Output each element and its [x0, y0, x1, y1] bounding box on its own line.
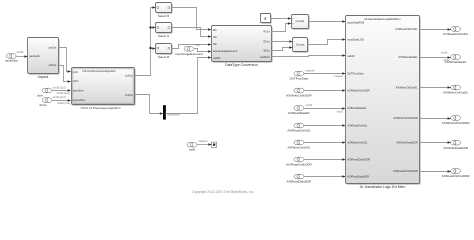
- svg-text:pxlIn: pxlIn: [73, 70, 79, 74]
- svg-text:pxlOut: pxlOut: [125, 74, 133, 78]
- svg-text:AXIWriteCtrlOutDDR: AXIWriteCtrlOutDDR: [393, 116, 418, 120]
- svg-text:AXIWriteCtrlOutDL: AXIWriteCtrlOutDL: [443, 91, 468, 95]
- svg-text:inputImageExponent: inputImageExponent: [175, 52, 203, 56]
- svg-text:AXIReadCtrlOutDL: AXIReadCtrlOutDL: [443, 32, 469, 36]
- block Select B: [156, 3, 173, 19]
- arrowhead Select G: [152, 26, 155, 29]
- arrowhead DUTProcStart: [342, 72, 345, 75]
- svg-text:pxlOut: pxlOut: [49, 45, 57, 49]
- block Select R: [156, 44, 173, 60]
- arrowhead AXIWriteDataDDR oval: [448, 141, 451, 144]
- arrowhead inputImageExponent: [208, 50, 211, 53]
- port InputData: [5, 54, 18, 63]
- svg-text:AXIWriteDataDDR: AXIWriteDataDDR: [443, 146, 468, 150]
- port AXIReadDataDL: [288, 106, 311, 116]
- svg-text:validOut: validOut: [260, 55, 270, 59]
- svg-text:DUTProcStart: DUTProcStart: [290, 77, 309, 81]
- port AXIWriteCtrlOutDDR port: [442, 116, 471, 126]
- wire dims1 to YOLO: [52, 100, 71, 102]
- block Concat: [292, 15, 310, 30]
- svg-text:4: 4: [264, 16, 267, 21]
- wire AXIWriteCtrlInDDR wire: [304, 90, 346, 92]
- arrowhead Concat in1: [288, 17, 291, 20]
- svg-text:dims: dims: [37, 93, 44, 97]
- wire Unpack pxlOut to pxlIn: [59, 48, 71, 72]
- svg-text:AXIReadDataDL: AXIReadDataDL: [288, 111, 311, 115]
- arrowhead pxlIn: [68, 70, 71, 73]
- svg-text:boolean: boolean: [306, 69, 316, 72]
- wire Select B to Bin: [172, 8, 212, 30]
- svg-text:Bin: Bin: [213, 28, 217, 32]
- arrowhead AXIReadDataDDR: [342, 175, 345, 178]
- svg-text:YOLO v2 Preprocess Algorithm: YOLO v2 Preprocess Algorithm: [80, 106, 121, 110]
- svg-text:AXIWriteCtrlOutDL: AXIWriteCtrlOutDL: [396, 86, 419, 90]
- svg-text:validIn: validIn: [213, 56, 221, 60]
- svg-text:Select B: Select B: [158, 14, 169, 18]
- wire GOut to Concat1: [272, 41, 293, 43]
- svg-text:AXIWriteCtrlOutDDR: AXIWriteCtrlOutDDR: [442, 121, 471, 125]
- port DUTProcStart: [290, 71, 309, 81]
- arrowhead ctrlIn: [68, 80, 71, 83]
- svg-text:valid: valid: [189, 148, 196, 152]
- wire AXIWriteCtrlOutDDR out wire: [420, 118, 451, 120]
- arrowhead Concat1 in1: [289, 40, 292, 43]
- arrowhead Select R: [152, 47, 155, 50]
- svg-text:BOut: BOut: [264, 49, 270, 53]
- svg-text:Concat: Concat: [295, 19, 304, 23]
- wire AXIReadCtrlInDDR wire: [304, 159, 346, 161]
- svg-text:AXIReadCtrlOutDDR: AXIReadCtrlOutDDR: [442, 174, 471, 178]
- svg-text:AXIReadCtrlInDDR: AXIReadCtrlInDDR: [347, 158, 370, 162]
- wire validOut to validIn DL: [272, 56, 346, 57]
- constant 4: [261, 14, 272, 24]
- arrowhead Rin: [208, 43, 211, 46]
- wire const4 to Concat: [271, 18, 292, 20]
- arrowhead Select B: [152, 6, 155, 9]
- svg-text:uint16 [1x2]: uint16 [1x2]: [53, 96, 66, 99]
- svg-text:AXIWriteCtrlInDL: AXIWriteCtrlInDL: [288, 146, 311, 150]
- svg-text:AXIReadCtrlInDDR: AXIReadCtrlInDDR: [286, 163, 313, 167]
- svg-text:ctrlOut: ctrlOut: [125, 93, 133, 97]
- wire AXIReadCtrlInDL wire: [304, 125, 346, 127]
- wire AXIReadCtrlOutDDR out wire: [420, 171, 451, 173]
- wire AXIReadCtrlOutDL out wire: [420, 29, 451, 31]
- wire dims to YOLO: [52, 90, 71, 92]
- wire Concat1 to inputDataLSB: [308, 40, 346, 45]
- svg-text:GOut: GOut: [263, 40, 270, 44]
- svg-text:ctrlOut: ctrlOut: [48, 63, 56, 67]
- arrowhead AXIWriteDataDL oval: [448, 56, 451, 59]
- svg-text:AXIReadDataDDR: AXIReadDataDDR: [286, 180, 312, 184]
- svg-text:DLHandshakesLogicExtMem: DLHandshakesLogicExtMem: [364, 17, 401, 21]
- port inputImageExponent: [175, 46, 203, 56]
- wire InputData to Unpack: [16, 56, 28, 58]
- wire AXIWriteCtrlInDL wire: [304, 142, 346, 144]
- arrowhead AXIReadCtrlOutDL oval: [448, 28, 451, 31]
- svg-text:validIn: validIn: [347, 54, 355, 58]
- port AXIReadCtrlInDDR: [286, 157, 313, 167]
- svg-text:Unpack: Unpack: [38, 75, 49, 79]
- arrowhead sink: [208, 143, 211, 146]
- arrowhead port3: [68, 89, 71, 92]
- arrowhead AXIReadCtrlInDDR: [342, 158, 345, 161]
- svg-text:uint16 [1x2]: uint16 [1x2]: [57, 102, 70, 105]
- svg-text:inputDataRGB: inputDataRGB: [347, 20, 364, 24]
- wire Select R to Rin: [172, 45, 212, 49]
- wire AXIWriteDataDL out wire: [420, 57, 451, 59]
- svg-text:AXIReadCtrlOutDDR: AXIReadCtrlOutDDR: [393, 169, 418, 173]
- port AXIReadDataDDR: [286, 174, 312, 184]
- arrowhead port4: [68, 99, 71, 102]
- port AXIWriteCtrlInDL: [288, 140, 311, 150]
- wire bus branch Select R: [151, 48, 156, 50]
- svg-text:inputDataLSB: inputDataLSB: [347, 37, 364, 41]
- port valid: [187, 142, 197, 151]
- arrowhead AXIReadCtrlOutDDR oval: [448, 170, 451, 173]
- wire AXIReadDataDL wire: [304, 108, 346, 110]
- svg-text:dims1: dims1: [39, 103, 47, 107]
- wire AXIWriteCtrlOutDL out wire: [420, 87, 451, 89]
- svg-text:inputImageExponent: inputImageExponent: [213, 49, 237, 53]
- port AXIWriteDataDL port: [445, 55, 467, 65]
- arrowhead packedIn: [24, 55, 27, 58]
- wire AXIWriteDataDDR out wire: [420, 142, 451, 144]
- arrowhead AXIWriteCtrlOutDL oval: [448, 86, 451, 89]
- wire Select G to Gin: [172, 28, 212, 37]
- svg-text:Concat: Concat: [296, 42, 305, 46]
- svg-text:uint16 [1x2]: uint16 [1x2]: [57, 92, 70, 95]
- arrowhead bar in: [160, 112, 163, 115]
- sink block: [212, 142, 217, 147]
- port dims: [42, 88, 52, 93]
- svg-text:AXIWriteCtrlInDDR: AXIWriteCtrlInDDR: [347, 89, 369, 93]
- svg-text:ctrlIn: ctrlIn: [73, 79, 79, 83]
- svg-text:AXIWriteCtrlInDDR: AXIWriteCtrlInDDR: [286, 94, 312, 98]
- block Select G: [156, 23, 173, 39]
- wire Unpack ctrlOut to ctrlIn: [59, 66, 71, 82]
- wire BOut to Concat1: [272, 48, 293, 51]
- svg-text:pixelcontrol: pixelcontrol: [168, 114, 181, 117]
- svg-text:AXIReadCtrlInDL: AXIReadCtrlInDL: [287, 129, 310, 133]
- svg-text:AXIReadCtrlOutDL: AXIReadCtrlOutDL: [395, 27, 418, 31]
- wire DUTProcStart wire: [304, 73, 346, 75]
- block DL Handshake Logic Ext Mem: [346, 16, 421, 190]
- svg-text:AXIReadCtrlInDL: AXIReadCtrlInDL: [347, 124, 368, 128]
- arrowhead Gin: [208, 35, 211, 38]
- port AXIWriteCtrlInDDR: [286, 88, 312, 98]
- svg-text:uint32: uint32: [441, 52, 448, 55]
- svg-text:inputSize: inputSize: [73, 89, 84, 93]
- arrowhead inputDataRGB: [342, 20, 345, 23]
- wire valid to sink: [197, 144, 212, 146]
- port AXIReadCtrlOutDDR port: [442, 169, 471, 179]
- svg-text:ROut: ROut: [263, 30, 269, 34]
- arrowhead Bin: [208, 28, 211, 31]
- wire bar to validIn: [166, 58, 212, 114]
- svg-text:AXIReadDataDL: AXIReadDataDL: [347, 106, 367, 110]
- svg-text:DUTProcStart: DUTProcStart: [347, 72, 364, 76]
- block YOLO v2 Preprocess Algorithm: [72, 68, 136, 111]
- arrowhead Concat1 in2: [289, 46, 292, 49]
- svg-text:boolean: boolean: [334, 75, 343, 78]
- arrowhead validIn DTC: [208, 56, 211, 59]
- port AXIWriteDataDDR port: [443, 140, 468, 150]
- block Unpack: [28, 38, 60, 80]
- svg-text:AXIWriteDataDL: AXIWriteDataDL: [398, 55, 418, 59]
- svg-text:Select G: Select G: [158, 34, 170, 38]
- arrowhead AXIReadCtrlInDL: [342, 124, 345, 127]
- arrowhead AXIWriteCtrlInDDR: [342, 89, 345, 92]
- arrowhead AXIReadDataDL: [342, 107, 345, 110]
- block DataType Conversion: [212, 26, 273, 68]
- svg-text:uint32: uint32: [16, 50, 24, 54]
- arrowhead Concat in2: [288, 22, 291, 25]
- svg-text:packedIn: packedIn: [29, 54, 40, 58]
- junction dot G: [149, 26, 151, 28]
- arrowhead inputDataLSB: [342, 38, 345, 41]
- wire ctrlOut down: [135, 95, 164, 114]
- port AXIWriteCtrlOutDL port: [443, 85, 468, 95]
- arrowhead AXIWriteCtrlInDL: [342, 141, 345, 144]
- port AXIReadCtrlInDL: [287, 123, 310, 133]
- svg-text:uint32: uint32: [306, 104, 313, 107]
- wire inputImageExponent wire: [194, 49, 212, 52]
- wire ROut to Concat: [272, 24, 292, 32]
- svg-text:uint32: uint32: [336, 110, 343, 113]
- svg-text:AXIWriteCtrlInDL: AXIWriteCtrlInDL: [347, 141, 368, 145]
- svg-text:DataType Conversion: DataType Conversion: [225, 63, 258, 67]
- svg-text:Copyright 2022-2024 The MathWo: Copyright 2022-2024 The MathWorks, Inc.: [192, 190, 254, 194]
- svg-text:DL Handshake Logic Ext Mem: DL Handshake Logic Ext Mem: [360, 185, 406, 189]
- wire Concat to inputDataRGB: [309, 21, 346, 23]
- block Concat1: [293, 38, 309, 53]
- svg-text:outputSize: outputSize: [73, 98, 86, 102]
- svg-text:AXIReadDataDDR: AXIReadDataDDR: [347, 175, 369, 179]
- arrowhead validIn DL: [342, 54, 345, 57]
- svg-text:uint16 [1x2]: uint16 [1x2]: [53, 86, 66, 89]
- svg-text:Rin: Rin: [213, 42, 217, 46]
- svg-text:Select R: Select R: [158, 55, 170, 59]
- mux bar: [163, 105, 166, 119]
- svg-text:Gin: Gin: [213, 35, 218, 39]
- port AXIReadCtrlOutDL port: [443, 27, 469, 37]
- svg-text:boolean: boolean: [199, 140, 209, 143]
- svg-text:uint32: uint32: [443, 59, 450, 62]
- arrowhead AXIWriteCtrlOutDDR oval: [448, 117, 451, 120]
- svg-text:YOLOv2PreprocessAlgorithm: YOLOv2PreprocessAlgorithm: [82, 69, 116, 73]
- junction dot R: [149, 47, 151, 49]
- svg-text:int8: int8: [196, 44, 201, 47]
- wire pxlOut bus: [135, 8, 156, 76]
- svg-text:AXIWriteDataDDR: AXIWriteDataDDR: [396, 141, 418, 145]
- port dims1: [42, 98, 52, 103]
- svg-text:InputData: InputData: [5, 59, 18, 63]
- wire AXIReadDataDDR wire: [304, 176, 346, 178]
- wire bus branch Select G: [151, 27, 156, 29]
